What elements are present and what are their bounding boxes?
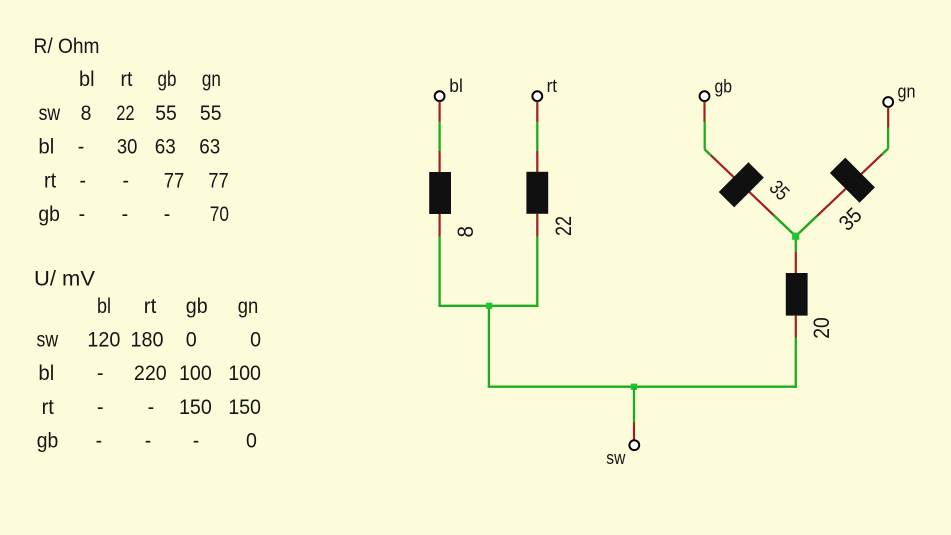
R table row gb <box>38 203 229 226</box>
resistor R-rt bottom lead <box>536 214 538 237</box>
resistor R-sw bottom lead <box>795 316 797 338</box>
svg-text:-: - <box>122 203 129 226</box>
svg-text:-: - <box>148 396 155 419</box>
resistor R-bl body <box>429 172 451 214</box>
svg-text:rt: rt <box>547 76 557 96</box>
wire green segment at gn corner <box>882 149 888 155</box>
svg-text:rt: rt <box>44 169 56 192</box>
svg-text:sw: sw <box>606 448 626 468</box>
svg-text:gb: gb <box>186 295 208 318</box>
terminal pin sw <box>629 440 639 450</box>
svg-text:gn: gn <box>238 295 258 318</box>
svg-text:35: 35 <box>765 176 794 205</box>
svg-text:bl: bl <box>38 136 54 159</box>
R table row sw <box>39 102 222 125</box>
wire net below R-bl <box>438 237 440 307</box>
svg-text:220: 220 <box>134 362 167 385</box>
wire from R-sw down to lower bus <box>795 338 797 388</box>
svg-text:63: 63 <box>199 136 220 159</box>
R table row bl <box>38 136 220 159</box>
svg-text:gb: gb <box>158 68 177 91</box>
terminal pin gb <box>700 91 710 101</box>
wire net bl vertical <box>438 122 440 151</box>
wire net gn vertical <box>887 128 889 149</box>
wire bus joining bl and rt branches <box>438 305 538 307</box>
resistor R-gn body <box>830 158 875 203</box>
svg-text:35: 35 <box>834 203 867 236</box>
svg-text:150: 150 <box>228 396 261 419</box>
svg-text:-: - <box>79 203 86 226</box>
wire net gb vertical <box>704 122 706 150</box>
svg-text:-: - <box>193 430 200 453</box>
U table row rt <box>42 396 261 419</box>
svg-text:-: - <box>97 362 104 385</box>
svg-text:100: 100 <box>179 362 212 385</box>
pin rt red stub wire <box>536 102 538 123</box>
pin gn red stub wire <box>887 107 889 127</box>
svg-text:sw: sw <box>37 329 59 352</box>
pin sw red stub wire <box>633 423 635 440</box>
svg-text:bl: bl <box>97 295 111 318</box>
svg-text:-: - <box>123 169 130 192</box>
svg-text:-: - <box>80 169 87 192</box>
svg-text:-: - <box>78 136 85 159</box>
svg-text:77: 77 <box>164 169 185 192</box>
resistor R-rt top lead <box>536 151 538 173</box>
resistor R-sw body <box>786 273 808 316</box>
wire from Y junction down <box>795 240 797 253</box>
svg-text:gb: gb <box>715 76 733 96</box>
svg-text:8: 8 <box>453 226 478 238</box>
U table row sw <box>37 329 262 352</box>
svg-text:0: 0 <box>246 430 257 453</box>
svg-text:-: - <box>145 430 152 453</box>
svg-text:bl: bl <box>79 68 95 91</box>
resistor R-rt body <box>526 172 548 214</box>
svg-text:gb: gb <box>37 430 59 453</box>
svg-text:rt: rt <box>144 295 157 318</box>
svg-text:0: 0 <box>250 329 261 352</box>
pin bl red stub wire <box>439 102 441 123</box>
lower wire bus <box>488 386 797 388</box>
wire green segment to center junction from gb side <box>774 215 796 236</box>
svg-text:180: 180 <box>131 329 164 352</box>
terminal pin bl <box>435 91 445 101</box>
resistor R-bl bottom lead <box>439 214 441 237</box>
svg-text:77: 77 <box>208 169 229 192</box>
U table row gb <box>37 430 257 453</box>
svg-text:-: - <box>96 430 103 453</box>
wire net rt vertical <box>536 122 538 151</box>
svg-text:rt: rt <box>42 396 54 419</box>
svg-text:0: 0 <box>186 329 197 352</box>
U table header row <box>97 295 258 318</box>
svg-text:bl: bl <box>449 76 463 96</box>
wire green segment at gb corner <box>705 149 711 155</box>
svg-text:gn: gn <box>202 68 221 91</box>
svg-text:120: 120 <box>87 329 120 352</box>
svg-text:U/ mV: U/ mV <box>34 268 95 291</box>
svg-text:150: 150 <box>179 396 212 419</box>
svg-text:22: 22 <box>116 102 134 125</box>
svg-text:R/ Ohm: R/ Ohm <box>34 35 100 58</box>
wire net below R-rt <box>536 237 538 307</box>
svg-text:100: 100 <box>228 362 261 385</box>
svg-text:-: - <box>97 396 104 419</box>
resistor R-sw top lead <box>795 252 797 273</box>
pin gb red stub wire <box>703 102 705 122</box>
svg-text:sw: sw <box>39 102 61 125</box>
junction node on upper bus <box>486 303 492 309</box>
R table row rt <box>44 169 229 192</box>
junction node on lower bus <box>631 384 637 390</box>
svg-text:-: - <box>164 203 171 226</box>
svg-text:30: 30 <box>117 136 137 159</box>
wire from bus down to lower bus <box>488 306 490 388</box>
R table header row <box>79 68 221 91</box>
terminal pin rt <box>532 91 542 101</box>
resistor R-gn diagonal leads (red) <box>796 149 888 237</box>
svg-text:bl: bl <box>38 362 54 385</box>
junction node at Y center <box>792 233 799 240</box>
svg-text:55: 55 <box>200 102 222 125</box>
svg-text:gb: gb <box>38 203 60 226</box>
svg-text:gn: gn <box>898 81 916 101</box>
resistor R-bl top lead <box>439 151 441 173</box>
U table row bl <box>38 362 261 385</box>
svg-text:rt: rt <box>121 68 133 91</box>
svg-text:8: 8 <box>81 102 92 125</box>
svg-text:70: 70 <box>210 203 229 226</box>
svg-text:63: 63 <box>155 136 176 159</box>
svg-text:55: 55 <box>155 102 177 125</box>
svg-text:20: 20 <box>809 317 834 339</box>
terminal pin gn <box>883 97 893 107</box>
wire green segment to center junction from gn side <box>796 216 818 237</box>
resistor R-gb body <box>719 162 764 207</box>
wire from lower bus down to sw pin <box>633 387 635 423</box>
resistor R-gb diagonal leads (red) <box>705 149 796 236</box>
svg-text:22: 22 <box>551 216 576 236</box>
